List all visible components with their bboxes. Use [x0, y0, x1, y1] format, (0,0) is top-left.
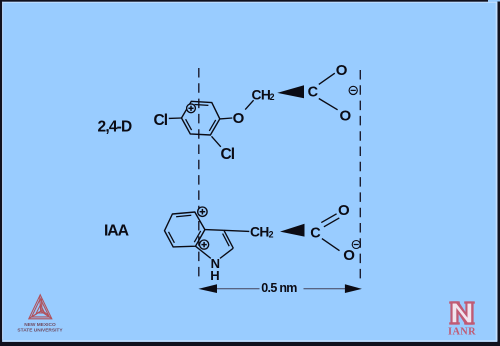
svg-text:O: O [343, 247, 355, 264]
svg-text:C: C [310, 225, 321, 241]
bond ring to Cl (2-position) [212, 136, 221, 147]
bond O to CH2 [245, 100, 253, 109]
IANR logo N [449, 301, 475, 324]
svg-text:STATE UNIVERSITY: STATE UNIVERSITY [17, 328, 63, 334]
svg-text:2,4-D: 2,4-D [98, 119, 133, 136]
bond C to top O (2,4-D) [319, 73, 335, 84]
svg-text:IAA: IAA [104, 222, 129, 239]
dimension arrow right line [304, 288, 346, 290]
benzene ring (2,4-D) [182, 101, 220, 135]
svg-text:2: 2 [269, 229, 274, 239]
pyrrole ring bonds (IAA) [196, 230, 234, 259]
dimension arrow left head [198, 284, 217, 293]
plus charge bottom (IAA) [200, 240, 209, 249]
svg-text:NEW MEXICO: NEW MEXICO [24, 322, 56, 328]
label CH2 (IAA) [250, 224, 274, 239]
benzene double bond lower-left (IAA) [169, 232, 175, 243]
minus charge (IAA) [352, 241, 360, 249]
svg-text:Cl: Cl [154, 112, 168, 129]
pyrrole double bond C2=C3 (IAA) [223, 234, 230, 247]
svg-text:O: O [340, 107, 352, 124]
svg-text:Cl: Cl [221, 146, 235, 163]
benzene double bond top (IAA) [176, 215, 191, 216]
svg-text:CH: CH [250, 224, 269, 239]
plus charge on 2,4-D ring [187, 104, 196, 113]
bond Cl to ring [169, 117, 182, 119]
wedge bond (2,4-D) [277, 85, 304, 98]
NMSU logo text [17, 322, 63, 334]
bond C to bottom O (2,4-D) [319, 99, 338, 110]
bond C to bottom O (IAA) [322, 239, 340, 251]
benzene ring (IAA) [165, 212, 205, 247]
plus charge top (IAA) [198, 207, 207, 216]
left dashed line [198, 68, 200, 282]
benzene double bond fusion (IAA) [194, 231, 200, 242]
svg-text:O: O [336, 62, 348, 79]
bond ring to ether O [220, 117, 233, 120]
NMSU logo triangle [29, 295, 52, 319]
dimension arrow right head [345, 284, 362, 293]
right dashed line [359, 70, 361, 281]
minus charge (2,4-D) [349, 86, 357, 94]
svg-text:H: H [210, 268, 219, 283]
wedge bond (IAA) [280, 224, 305, 237]
svg-text:O: O [338, 202, 350, 219]
dimension arrow left line [217, 288, 260, 290]
bond C3 to CH2 (IAA) [224, 230, 249, 231]
benzene double bond lower-left (2,4-D) [186, 119, 192, 130]
benzene double bond lower-right (2,4-D) [209, 120, 215, 131]
svg-text:C: C [308, 85, 319, 101]
double bond C=O (IAA) [321, 214, 339, 227]
svg-text:0.5 nm: 0.5 nm [261, 281, 297, 295]
svg-text:CH: CH [252, 87, 271, 102]
benzene double bond top (2,4-D) [195, 104, 209, 107]
svg-text:IANR: IANR [448, 327, 476, 338]
svg-text:O: O [233, 110, 245, 127]
label CH2 (2,4-D) [252, 87, 275, 102]
svg-text:2: 2 [270, 92, 275, 102]
